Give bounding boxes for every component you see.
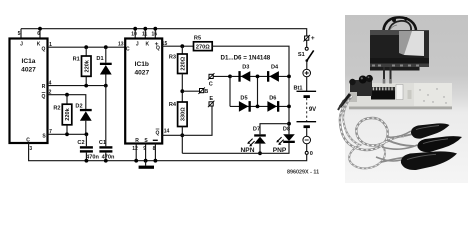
wire IC1a Q1 to IC1b C13 bbox=[48, 46, 126, 48]
diode D1 bbox=[96, 56, 111, 75]
svg-text:IC1a: IC1a bbox=[22, 58, 36, 65]
svg-text:4027: 4027 bbox=[21, 67, 36, 74]
terminal plus bbox=[304, 35, 315, 42]
svg-text:470n: 470n bbox=[86, 154, 99, 160]
svg-text:R1: R1 bbox=[73, 57, 80, 63]
svg-text:6: 6 bbox=[37, 31, 40, 37]
wire IC1b pin16 riser bbox=[154, 29, 156, 39]
diode D2 bbox=[75, 104, 91, 121]
svg-text:S: S bbox=[42, 134, 46, 140]
node junction pin9 bbox=[144, 159, 148, 163]
wire D7 bottom bbox=[259, 144, 261, 154]
svg-text:D2: D2 bbox=[75, 104, 82, 110]
svg-text:Q: Q bbox=[42, 47, 46, 53]
svg-text:R: R bbox=[135, 138, 139, 144]
svg-text:3: 3 bbox=[29, 146, 32, 152]
wire D1 leads bbox=[105, 47, 107, 85]
svg-text:11: 11 bbox=[142, 32, 148, 38]
svg-text:C: C bbox=[209, 82, 213, 88]
svg-text:220k: 220k bbox=[65, 107, 71, 120]
battery plus circle bbox=[303, 69, 311, 77]
diode D6 bbox=[267, 96, 279, 112]
node junction top rail at pin16 bbox=[153, 27, 157, 31]
wire bridge mid vertical bbox=[257, 76, 259, 106]
node junction C1 bottom bbox=[104, 159, 108, 163]
node junction pin12 bbox=[134, 159, 138, 163]
svg-text:IC1b: IC1b bbox=[135, 61, 149, 68]
wire R2 leads bbox=[66, 95, 68, 135]
svg-text:K: K bbox=[145, 41, 149, 47]
svg-text:5: 5 bbox=[18, 31, 21, 37]
diode D5 bbox=[239, 96, 251, 112]
svg-text:0: 0 bbox=[310, 151, 313, 157]
wire IC1b pin10 riser bbox=[134, 29, 136, 39]
svg-text:R: R bbox=[42, 84, 46, 90]
IC IC1b 4027 flip-flop bbox=[118, 32, 169, 152]
wire C terminal to bridge bbox=[213, 75, 230, 77]
led D7 NPN bbox=[241, 127, 266, 154]
battery minus circle bbox=[303, 136, 311, 144]
wire LED rail bbox=[182, 143, 289, 153]
terminal 0 bbox=[305, 144, 313, 157]
node junction R2 bottom bbox=[65, 132, 69, 136]
svg-text:J: J bbox=[136, 41, 139, 47]
diode D4 bbox=[267, 65, 279, 82]
svg-text:C: C bbox=[126, 46, 130, 52]
wire IC1a pin5 riser bbox=[20, 29, 22, 39]
svg-text:Q: Q bbox=[42, 94, 46, 100]
wire IC1a R4 line bbox=[48, 85, 106, 87]
capacitor C2 470n bbox=[77, 140, 99, 160]
node junction mid top bbox=[256, 75, 260, 79]
svg-text:C2: C2 bbox=[77, 140, 84, 146]
wire IC1b pin11 riser bbox=[144, 29, 146, 39]
wire bridge row1 bbox=[230, 75, 289, 77]
photo panel bbox=[345, 15, 468, 183]
svg-text:Q: Q bbox=[156, 46, 160, 52]
photo twisted test leads bbox=[340, 96, 416, 168]
wire IC1b pin8 drop bbox=[154, 144, 156, 161]
node junction R3 top bbox=[180, 44, 184, 48]
wire IC1a S7 line bbox=[48, 133, 87, 135]
node junction right bottom bbox=[287, 105, 291, 109]
wire bridge left vertical bbox=[229, 76, 231, 106]
node junction C2 bottom bbox=[85, 159, 89, 163]
svg-text:D3: D3 bbox=[242, 65, 249, 71]
svg-text:220Ω: 220Ω bbox=[180, 56, 186, 70]
svg-text:330Ω: 330Ω bbox=[180, 107, 186, 121]
node junction B takeoff bbox=[180, 89, 184, 93]
node junction D1 top bbox=[104, 45, 108, 49]
node junction bridge left top bbox=[228, 75, 232, 79]
svg-text:R4: R4 bbox=[169, 102, 177, 108]
wire IC1b Q14 line to E terminal bbox=[162, 106, 212, 135]
wire R4 bottom through pin14 line to LED rail bbox=[181, 127, 183, 154]
node junction D7 bottom bbox=[258, 151, 262, 155]
svg-text:R2: R2 bbox=[53, 106, 60, 112]
wire IC1a Q2 line bbox=[48, 95, 86, 109]
wire C1 column bbox=[105, 86, 107, 161]
node junction R1 bottom bbox=[84, 84, 88, 88]
photo alligator clips bbox=[401, 123, 462, 170]
terminal B bbox=[198, 87, 208, 95]
resistor R1 220k bbox=[73, 56, 91, 76]
resistor R2 220k bbox=[53, 104, 71, 125]
svg-text:10: 10 bbox=[131, 32, 137, 38]
svg-text:C1: C1 bbox=[99, 140, 106, 146]
svg-text:E: E bbox=[209, 96, 213, 102]
wire to B terminal bbox=[182, 90, 199, 92]
wire R3 top lead bbox=[181, 46, 183, 54]
led D8 PNP bbox=[273, 127, 295, 154]
svg-text:16: 16 bbox=[152, 32, 158, 38]
wire R5 to right vertical bbox=[212, 46, 289, 134]
node junction D2 bottom C2 top bbox=[85, 132, 89, 136]
terminal E bbox=[208, 96, 215, 107]
node junction LED branch bbox=[287, 122, 291, 126]
node junction R2 top bbox=[65, 93, 69, 97]
svg-text:13: 13 bbox=[118, 42, 124, 48]
wire C2 column bbox=[85, 134, 87, 160]
node junction R1 top bbox=[84, 45, 88, 49]
svg-text:D1...D6 = 1N4148: D1...D6 = 1N4148 bbox=[221, 55, 271, 62]
wire top supply rail bbox=[21, 29, 307, 36]
svg-text:D6: D6 bbox=[269, 96, 276, 102]
wire branch to D7 bbox=[260, 124, 289, 135]
wire IC1a pin6 riser bbox=[39, 29, 41, 39]
svg-text:R5: R5 bbox=[194, 35, 201, 41]
svg-text:D4: D4 bbox=[271, 65, 279, 71]
wire IC1b Q15 line bbox=[162, 45, 194, 47]
photo perfboard bbox=[338, 67, 452, 110]
svg-text:D1: D1 bbox=[96, 56, 103, 62]
svg-text:470n: 470n bbox=[102, 154, 115, 160]
svg-text:D5: D5 bbox=[240, 96, 247, 102]
wire R3 bottom to R4 top bbox=[181, 74, 183, 103]
svg-text:Q: Q bbox=[156, 131, 160, 137]
IC IC1a 4027 flip-flop bbox=[10, 31, 53, 152]
svg-text:+: + bbox=[311, 35, 315, 42]
svg-text:896029X - 11: 896029X - 11 bbox=[287, 169, 319, 175]
svg-text:9V: 9V bbox=[309, 107, 316, 113]
svg-text:D8: D8 bbox=[283, 127, 290, 133]
battery Bt1 9V bbox=[293, 77, 316, 136]
resistor R3 220 ohm bbox=[169, 54, 187, 74]
svg-text:270Ω: 270Ω bbox=[196, 44, 210, 50]
wire IC1a C3 to ground rail bbox=[29, 143, 307, 161]
svg-text:220k: 220k bbox=[84, 59, 90, 72]
svg-text:K: K bbox=[37, 41, 41, 47]
svg-text:PNP: PNP bbox=[273, 147, 287, 154]
wire IC1b pin9 drop bbox=[145, 144, 147, 161]
node junction right top bbox=[287, 75, 291, 79]
terminal C bbox=[208, 73, 215, 87]
ground bar symbol bbox=[139, 161, 154, 169]
svg-text:S1: S1 bbox=[298, 52, 305, 58]
node junction top rail at pin6 bbox=[38, 27, 42, 31]
svg-text:12: 12 bbox=[132, 146, 138, 152]
resistor R5 270 ohm bbox=[194, 35, 213, 50]
svg-text:C: C bbox=[26, 138, 30, 144]
photo battery block bbox=[370, 17, 429, 71]
wire bridge row2 bbox=[230, 105, 289, 107]
switch S1 bbox=[298, 40, 314, 69]
svg-text:R3: R3 bbox=[169, 55, 176, 61]
node junction top rail at pin11 bbox=[143, 27, 147, 31]
photo clip lead wires bbox=[376, 131, 418, 161]
node junction R4 pin14 bbox=[180, 133, 184, 137]
wire D2 bottom lead bbox=[85, 121, 87, 135]
svg-text:J: J bbox=[20, 41, 23, 47]
svg-text:14: 14 bbox=[164, 129, 170, 135]
wire IC1b pin12 drop bbox=[135, 144, 137, 161]
node junction mid bottom bbox=[256, 105, 260, 109]
capacitor C1 470n bbox=[99, 140, 115, 160]
diode D3 bbox=[238, 65, 250, 82]
node junction top rail at pin10 bbox=[133, 27, 137, 31]
node junction pin8 bbox=[154, 159, 158, 163]
svg-text:Bt1: Bt1 bbox=[293, 85, 302, 91]
resistor R4 330 ohm bbox=[169, 102, 187, 127]
wire R1 leads bbox=[85, 47, 87, 85]
svg-text:B: B bbox=[204, 89, 208, 95]
node junction D1 bottom C1 top bbox=[104, 84, 108, 88]
svg-text:D7: D7 bbox=[253, 127, 260, 133]
svg-text:4027: 4027 bbox=[134, 70, 149, 77]
